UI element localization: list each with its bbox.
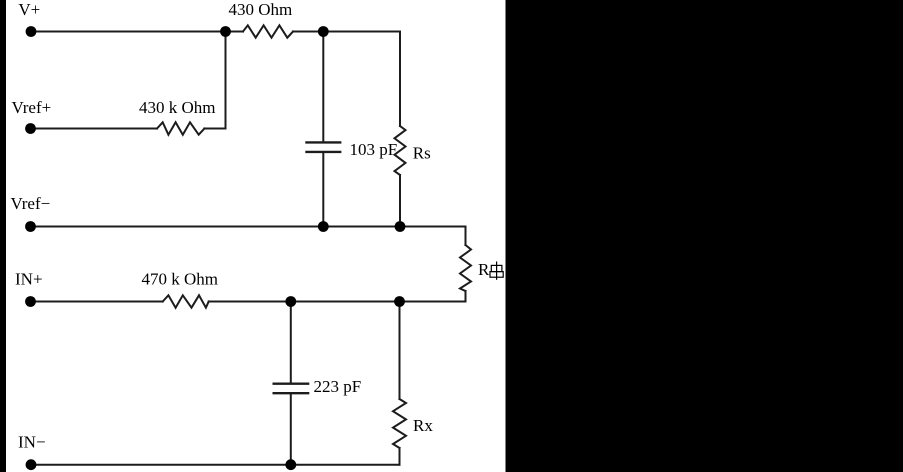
svg-text:IN−: IN− <box>18 432 46 451</box>
svg-text:223 pF: 223 pF <box>314 377 362 396</box>
svg-text:470 k Ohm: 470 k Ohm <box>142 270 219 289</box>
svg-text:Rs: Rs <box>413 144 431 163</box>
svg-text:430 k Ohm: 430 k Ohm <box>139 98 216 117</box>
svg-text:Vref−: Vref− <box>11 194 51 213</box>
svg-text:IN+: IN+ <box>15 270 43 289</box>
svg-text:Vref+: Vref+ <box>12 98 52 117</box>
svg-text:V+: V+ <box>18 0 40 19</box>
svg-text:Rx: Rx <box>413 416 433 435</box>
svg-text:430 Ohm: 430 Ohm <box>229 0 293 19</box>
svg-text:103 pF: 103 pF <box>350 140 398 159</box>
svg-text:R: R <box>478 260 490 279</box>
